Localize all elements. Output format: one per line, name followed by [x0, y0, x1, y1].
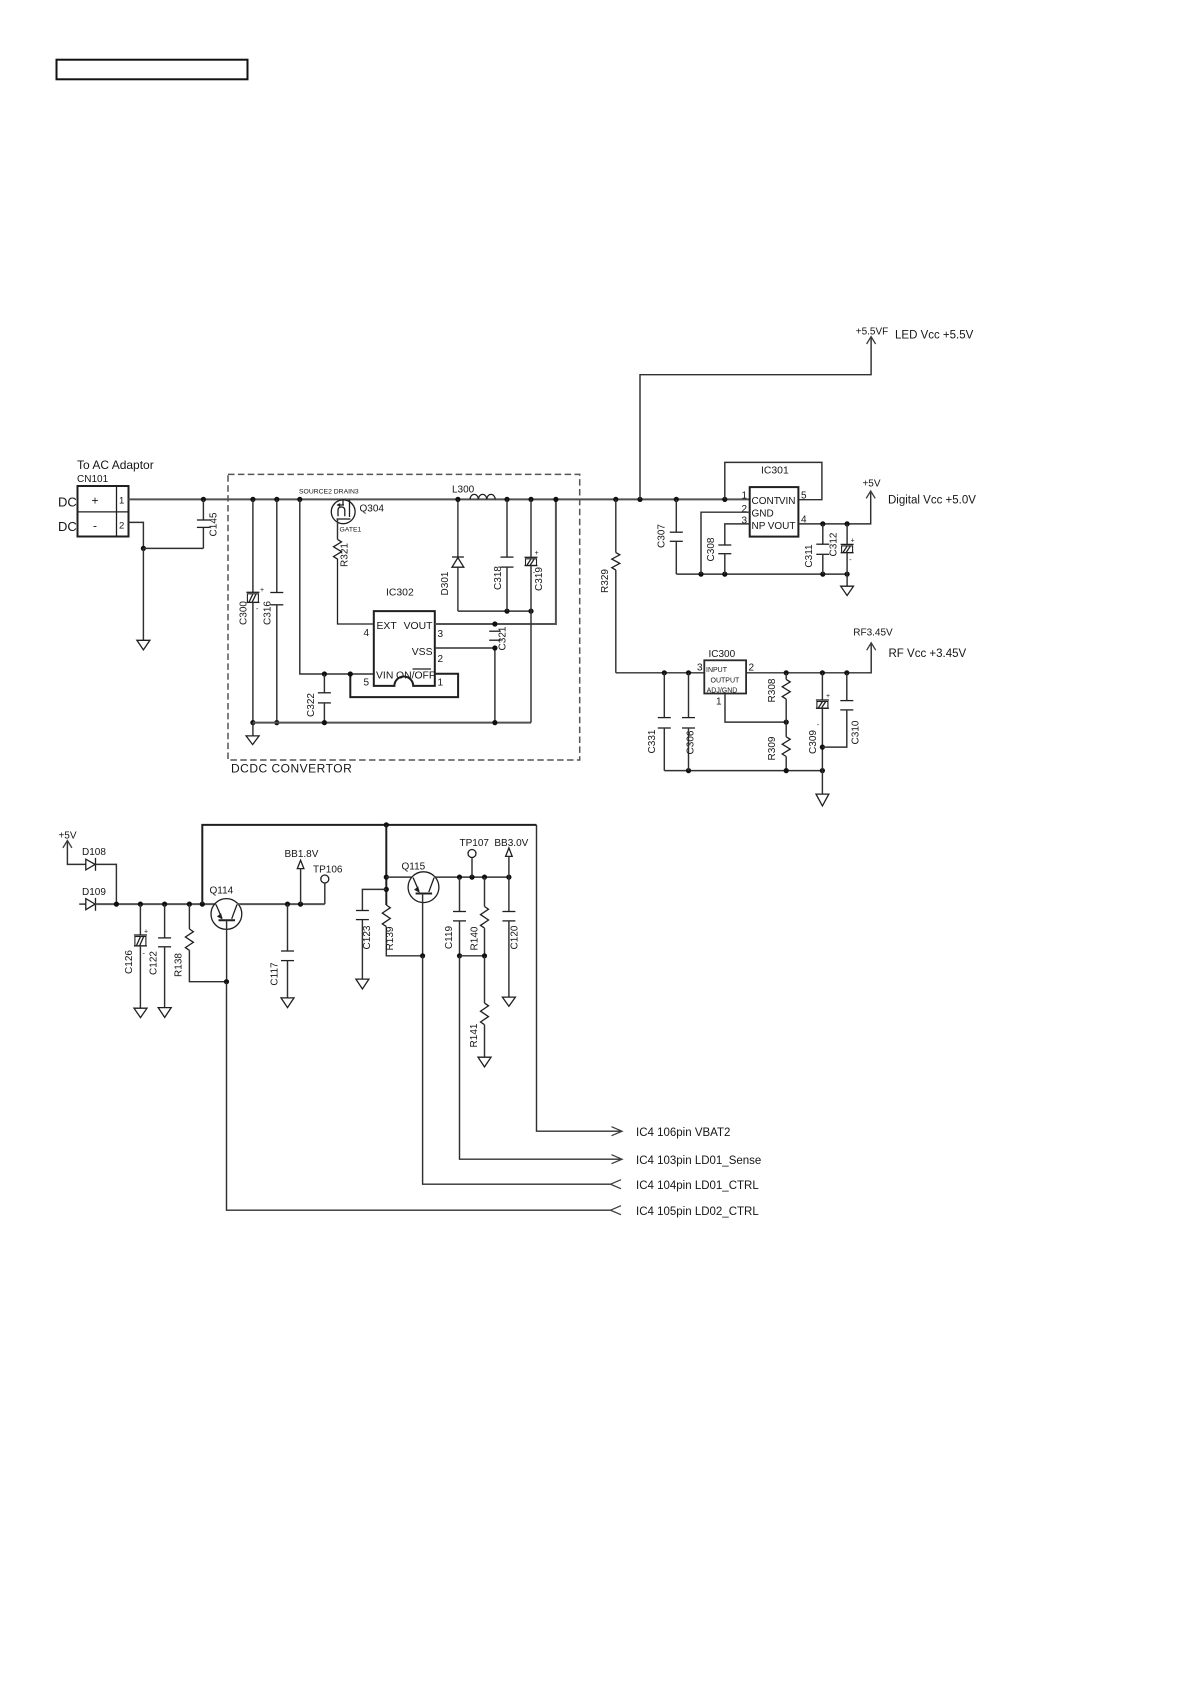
ground rail DCDC bottom: [253, 722, 531, 724]
capacitor C308: [706, 537, 731, 574]
wire IC300 ADJ pin1: [725, 694, 789, 725]
wire LD01_Sense to IC4: [460, 956, 762, 1167]
svg-text:To AC Adaptor: To AC Adaptor: [77, 458, 154, 472]
capacitor C318: [493, 497, 514, 611]
svg-text:Digital Vcc +5.0V: Digital Vcc +5.0V: [888, 495, 976, 507]
node BB3.0V arrow: [494, 838, 528, 877]
svg-text:C306: C306: [686, 730, 697, 754]
capacitor C120: [502, 877, 520, 997]
ground rail IC300: [664, 768, 825, 773]
resistor R140: [460, 877, 489, 958]
resistor R309: [767, 722, 790, 771]
svg-text:C308: C308: [706, 537, 717, 561]
svg-text:R329: R329: [600, 569, 611, 593]
resistor R321: [334, 539, 374, 624]
ground below CN101: [137, 640, 150, 650]
svg-text:2: 2: [119, 521, 124, 532]
svg-text:RF3.45V: RF3.45V: [853, 628, 893, 639]
resistor R329: [600, 497, 620, 673]
svg-text:OUTPUT: OUTPUT: [711, 677, 741, 684]
svg-text:ON/OFF: ON/OFF: [396, 671, 435, 682]
capacitor C126 (electrolytic): [124, 904, 148, 1008]
svg-text:IC300: IC300: [709, 649, 736, 660]
wire IC301 GND pin2: [701, 512, 750, 574]
node RF3.45V arrow: [853, 628, 893, 651]
wire LD01_CTRL from IC4: [423, 956, 760, 1192]
ground below C123: [356, 979, 369, 989]
node +5V arrow: [862, 479, 880, 499]
svg-text:R141: R141: [469, 1023, 480, 1047]
svg-text:C322: C322: [306, 693, 317, 717]
svg-text:IC4 105pin LD02_CTRL: IC4 105pin LD02_CTRL: [636, 1206, 759, 1218]
wire VOUT pin3: [435, 497, 559, 627]
svg-text:C120: C120: [510, 925, 521, 949]
svg-text:C319: C319: [534, 567, 545, 591]
svg-text:INPUT: INPUT: [706, 667, 728, 674]
svg-text:C123: C123: [362, 925, 373, 949]
svg-text:IC301: IC301: [761, 466, 789, 477]
ground below IC300 rail: [816, 771, 829, 806]
svg-text:C145: C145: [209, 512, 220, 536]
test point TP106: [313, 865, 343, 904]
wire CN101 pin2: [129, 522, 144, 548]
svg-text:5: 5: [801, 491, 807, 502]
svg-text:2: 2: [749, 663, 755, 674]
svg-text:R309: R309: [767, 736, 778, 760]
capacitor C306: [682, 673, 697, 771]
svg-text:D301: D301: [440, 571, 451, 595]
inductor L300: [452, 485, 495, 500]
test point TP107: [460, 838, 490, 877]
wire VSS pin2: [435, 645, 498, 725]
ground below C120: [502, 997, 515, 1006]
svg-text:TP107: TP107: [460, 838, 490, 849]
op-amp IC300 regulator box: [697, 649, 755, 708]
wire +5.5VF riser: [637, 338, 871, 503]
svg-text:NP: NP: [752, 521, 766, 532]
svg-text:C307: C307: [657, 524, 668, 548]
svg-text:C119: C119: [444, 925, 455, 949]
svg-text:1: 1: [741, 491, 747, 502]
svg-text:1: 1: [438, 678, 444, 689]
label RF Vcc: [889, 648, 967, 660]
svg-text:IC4 103pin LD01_Sense: IC4 103pin LD01_Sense: [636, 1155, 761, 1167]
capacitor C321: [489, 626, 508, 650]
capacitor C300 (electrolytic): [239, 497, 265, 725]
svg-text:-: -: [93, 519, 97, 533]
wire IC301 NP pin3: [725, 524, 750, 545]
svg-text:VIN: VIN: [376, 671, 393, 682]
svg-text:+: +: [91, 494, 98, 508]
wire top rail to VBAT2: [202, 822, 536, 904]
svg-text:IC302: IC302: [386, 588, 414, 599]
wire VIN branch: [297, 497, 374, 674]
diode D301: [440, 497, 464, 611]
svg-text:C126: C126: [124, 950, 135, 974]
capacitor C307: [657, 497, 683, 574]
capacitor C123: [356, 889, 386, 979]
svg-text:C309: C309: [808, 730, 819, 754]
op-amp IC302 regulator box: [363, 588, 443, 689]
wire Q114 to BB1.8V node: [237, 902, 325, 907]
svg-text:CN101: CN101: [77, 474, 109, 485]
resistor R141: [469, 956, 489, 1057]
capacitor C319 (electrolytic): [525, 497, 545, 611]
capacitor C145: [143, 497, 219, 549]
svg-text:+5.5VF: +5.5VF: [856, 327, 889, 338]
svg-text:DC: DC: [58, 495, 77, 510]
svg-text:+: +: [535, 550, 539, 557]
transistor Q114: [210, 886, 242, 985]
svg-text:CONT: CONT: [752, 496, 780, 507]
node BB1.8V arrow: [285, 849, 319, 904]
svg-text:C310: C310: [851, 720, 862, 744]
diode D109: [79, 887, 106, 911]
svg-text:GND: GND: [752, 509, 774, 520]
resistor R308: [767, 673, 790, 722]
ground below R141: [478, 1057, 491, 1067]
svg-text:Q114: Q114: [210, 886, 234, 897]
svg-text:VSS: VSS: [412, 647, 433, 658]
wire CN101 pin1 to bus: [129, 498, 750, 500]
svg-text:VIN: VIN: [779, 496, 796, 507]
svg-text:GATE1: GATE1: [340, 527, 362, 534]
resistor R139: [382, 905, 422, 956]
capacitor C122: [149, 904, 172, 1008]
svg-text:EXT: EXT: [377, 621, 398, 632]
svg-text:+: +: [851, 537, 855, 544]
svg-text:R140: R140: [470, 926, 481, 950]
svg-text:L300: L300: [452, 485, 475, 496]
svg-text:Q304: Q304: [360, 504, 385, 515]
capacitor C322: [306, 671, 331, 725]
svg-text:ADJ/GND: ADJ/GND: [707, 687, 738, 694]
node +5.5VF arrow: [856, 327, 889, 345]
wire VBAT2 to IC4: [537, 825, 731, 1139]
svg-text:IC4 106pin VBAT2: IC4 106pin VBAT2: [636, 1127, 730, 1139]
DCDC converter dashed box: [228, 474, 580, 760]
ground below C300: [246, 723, 259, 745]
svg-text:IC4 104pin LD01_CTRL: IC4 104pin LD01_CTRL: [636, 1180, 759, 1192]
svg-text:VOUT: VOUT: [768, 521, 796, 532]
svg-text:C300: C300: [239, 601, 250, 625]
capacitor C309 (electrolytic): [808, 673, 830, 771]
capacitor C312 (electrolytic): [829, 524, 855, 574]
svg-text:5: 5: [363, 678, 369, 689]
ground below C312: [841, 574, 854, 595]
title box: [57, 60, 248, 80]
svg-text:C316: C316: [263, 601, 274, 625]
node +5V arrow (lower): [58, 831, 85, 865]
svg-text:DC: DC: [58, 519, 77, 534]
svg-text:LED Vcc +5.5V: LED Vcc +5.5V: [895, 330, 974, 342]
label Digital Vcc: [888, 495, 976, 507]
capacitor C311: [804, 524, 829, 574]
svg-text:+5V: +5V: [862, 479, 880, 490]
svg-text:3: 3: [741, 516, 747, 527]
svg-text:C311: C311: [804, 544, 815, 568]
ground rail IC301: [676, 572, 849, 577]
capacitor C119: [444, 877, 466, 958]
svg-text:BB1.8V: BB1.8V: [285, 849, 319, 860]
svg-text:BB3.0V: BB3.0V: [494, 838, 528, 849]
capacitor C117: [270, 904, 295, 998]
svg-text:C312: C312: [829, 532, 840, 556]
svg-text:Q115: Q115: [402, 862, 426, 873]
wire IC301 VIN loop: [722, 462, 822, 502]
svg-text:RF Vcc +3.45V: RF Vcc +3.45V: [889, 648, 967, 660]
transistor Q304 (MOSFET): [299, 489, 384, 540]
svg-text:2: 2: [741, 504, 747, 515]
ground below C117: [281, 998, 294, 1008]
op-amp IC301 regulator box: [741, 466, 807, 537]
svg-text:+: +: [144, 929, 148, 936]
capacitor C310: [822, 673, 861, 747]
svg-text:C318: C318: [493, 566, 504, 590]
svg-text:C117: C117: [270, 962, 281, 986]
svg-text:1: 1: [716, 697, 722, 708]
svg-text:D109: D109: [82, 887, 106, 898]
label DCDC CONVERTOR: [231, 762, 352, 776]
connector CN101: [58, 458, 154, 537]
wire rail D301/C318/C319: [458, 609, 534, 723]
capacitor C316: [263, 497, 284, 725]
wire R329 to IC300 input rail: [616, 670, 705, 675]
wire node line Q114: [96, 902, 216, 907]
node pin2/C145 junction: [141, 546, 146, 640]
wire IC300 output rail: [746, 644, 871, 676]
svg-text:DCDC CONVERTOR: DCDC CONVERTOR: [231, 762, 352, 776]
svg-text:SOURCE2 DRAIN3: SOURCE2 DRAIN3: [299, 489, 359, 496]
svg-text:C321: C321: [498, 626, 509, 650]
ground below C126: [134, 1008, 147, 1017]
wire ON/OFF to VIN loop: [348, 671, 458, 697]
svg-text:R138: R138: [174, 953, 185, 977]
diode D108: [82, 847, 116, 904]
resistor R138: [174, 904, 227, 982]
wire R139/C123 riser: [384, 825, 389, 905]
svg-text:1: 1: [119, 496, 124, 507]
transistor Q115: [402, 862, 439, 959]
svg-text:R139: R139: [385, 926, 396, 950]
wire LD02_CTRL from IC4: [227, 982, 760, 1218]
svg-text:4: 4: [363, 628, 369, 639]
svg-text:C122: C122: [149, 951, 160, 975]
svg-text:+: +: [826, 693, 830, 700]
svg-text:2: 2: [438, 654, 444, 665]
ground below C122: [158, 1008, 171, 1018]
svg-text:D108: D108: [82, 847, 106, 858]
svg-text:C331: C331: [647, 729, 658, 753]
svg-text:R321: R321: [340, 543, 351, 567]
svg-text:TP106: TP106: [313, 865, 343, 876]
wire IC301 VOUT pin4: [798, 492, 870, 527]
wire Q115 to BB3.0V node: [435, 875, 512, 880]
capacitor C331: [647, 673, 671, 771]
wire Q115 emitter line: [386, 876, 412, 878]
label LED Vcc: [895, 330, 974, 342]
svg-text:VOUT: VOUT: [404, 621, 434, 632]
svg-text:R308: R308: [767, 678, 778, 702]
svg-text:3: 3: [697, 663, 703, 674]
svg-text:3: 3: [438, 629, 444, 640]
svg-text:+: +: [260, 587, 264, 594]
